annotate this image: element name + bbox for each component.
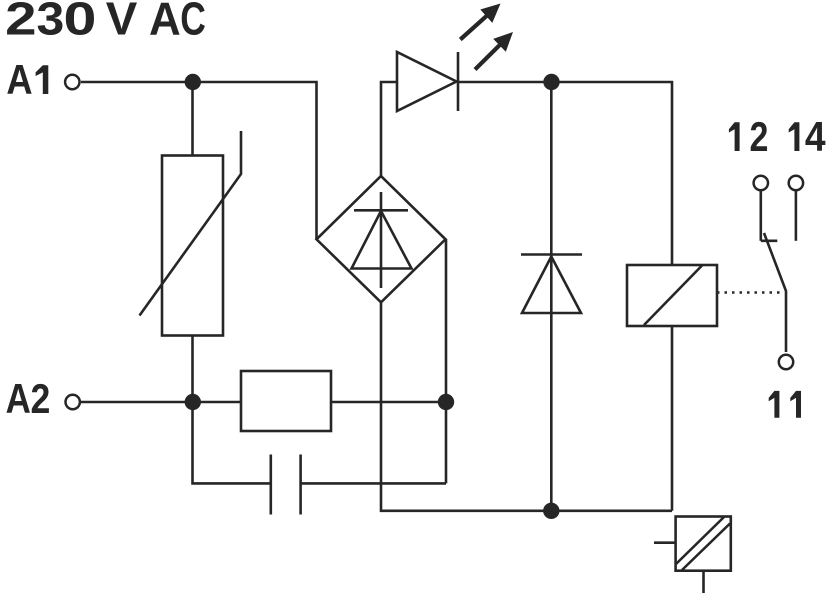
svg-text:2: 2: [749, 114, 768, 161]
svg-text:0: 0: [64, 0, 97, 45]
svg-text:A: A: [6, 57, 32, 104]
svg-text:V: V: [106, 0, 138, 44]
svg-text:2: 2: [31, 377, 51, 423]
svg-text:C: C: [180, 0, 206, 45]
svg-text:3: 3: [37, 0, 65, 45]
svg-text:2: 2: [5, 0, 36, 44]
svg-text:A: A: [6, 376, 31, 423]
svg-text:4: 4: [805, 114, 826, 161]
svg-text:A: A: [149, 0, 181, 45]
